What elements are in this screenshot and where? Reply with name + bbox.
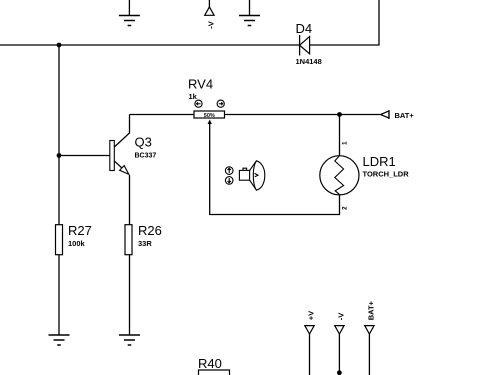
svg-text:LDR1: LDR1	[363, 154, 396, 169]
svg-text:R27: R27	[68, 223, 92, 238]
wire top ground 1	[128, 0, 130, 16]
wire Q3 base	[59, 155, 110, 157]
terminal -V top	[205, 7, 216, 29]
svg-text:Q3: Q3	[135, 135, 152, 150]
svg-text:100k: 100k	[68, 239, 86, 248]
transistor Q3	[110, 135, 157, 175]
terminal -V bottom	[335, 313, 346, 334]
resistor R27	[56, 223, 92, 255]
wire right of D4 to top right corner	[310, 0, 379, 45]
wire bottom terminal BAT+	[368, 334, 370, 375]
diode D4	[296, 21, 322, 66]
wire top terminal	[208, 0, 210, 7]
svg-text:R40: R40	[198, 356, 222, 371]
terminal BAT+ right	[381, 110, 415, 120]
svg-text:RV4: RV4	[188, 77, 213, 92]
svg-text:50%: 50%	[204, 113, 215, 119]
terminal +V bottom	[305, 311, 316, 334]
junction node -V bottom	[337, 370, 342, 375]
wire Q3 collector	[114, 115, 129, 148]
wire Q3 emitter to R26	[129, 175, 131, 225]
wire top ground 2	[249, 0, 251, 16]
wire main BAT+ rail	[130, 114, 195, 116]
svg-text:R26: R26	[138, 223, 162, 238]
junction node on top wire	[57, 43, 62, 48]
svg-text:+V: +V	[307, 311, 316, 320]
ground top 2	[239, 16, 260, 26]
svg-text:1N4148: 1N4148	[296, 57, 322, 66]
svg-text:1k: 1k	[189, 92, 198, 101]
wire LDR top	[339, 115, 341, 157]
svg-text:2: 2	[342, 206, 349, 210]
svg-text:1: 1	[342, 141, 349, 145]
svg-text:33R: 33R	[138, 239, 152, 248]
svg-text:D4: D4	[296, 21, 313, 36]
svg-text:TORCH_LDR: TORCH_LDR	[363, 170, 410, 179]
ground top 1	[119, 16, 140, 26]
wire top horizontal left of D4	[0, 44, 300, 46]
wire left rail	[58, 45, 60, 225]
LDR1	[320, 141, 409, 210]
svg-text:BAT+: BAT+	[366, 300, 375, 320]
wire bottom terminal +V	[309, 334, 311, 375]
junction node base tee	[57, 153, 62, 158]
svg-text:BC337: BC337	[135, 153, 157, 160]
potentiometer RV4	[188, 77, 225, 125]
ground under R26	[119, 335, 140, 345]
junction node LDR / BAT+ rail	[337, 112, 342, 117]
svg-text:-V: -V	[336, 313, 345, 321]
svg-text:BAT+: BAT+	[395, 111, 415, 120]
wire bottom terminal -V	[338, 334, 340, 375]
wire R27 to ground	[58, 255, 60, 335]
resistor R26	[125, 223, 162, 255]
wire pot wiper down and right to LDR	[210, 122, 340, 215]
ground under R27	[49, 335, 70, 345]
terminal BAT+ bottom	[365, 300, 376, 334]
svg-text:-V: -V	[207, 21, 216, 29]
speaker icon	[225, 161, 264, 190]
wire R26 to ground	[129, 255, 131, 335]
resistor R40 partial	[198, 356, 230, 375]
